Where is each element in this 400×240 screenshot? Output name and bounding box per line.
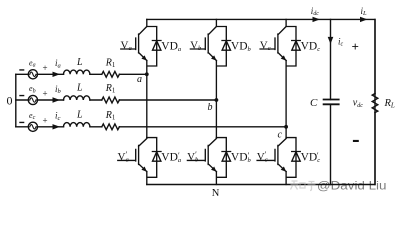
svg-text:c: c (278, 130, 283, 141)
svg-text:L: L (76, 57, 83, 68)
svg-text:N: N (212, 188, 220, 199)
svg-text:L: L (76, 83, 83, 94)
svg-text:0: 0 (7, 93, 13, 107)
svg-text:@David Liu: @David Liu (317, 178, 387, 192)
svg-text:Vc′: Vc′ (257, 150, 268, 163)
svg-text:+: + (43, 116, 48, 126)
svg-text:Va′: Va′ (118, 150, 129, 163)
svg-text:VDc′: VDc′ (301, 151, 321, 164)
svg-text:+: + (43, 89, 48, 99)
svg-text:VDa′: VDa′ (161, 151, 181, 164)
svg-text:L: L (76, 110, 83, 121)
svg-text:+: + (352, 39, 359, 54)
svg-text:+: + (43, 63, 48, 73)
svg-text:C: C (310, 97, 318, 109)
svg-text:a: a (137, 74, 142, 85)
svg-text:b: b (208, 102, 213, 113)
svg-text:VDb′: VDb′ (231, 151, 252, 164)
